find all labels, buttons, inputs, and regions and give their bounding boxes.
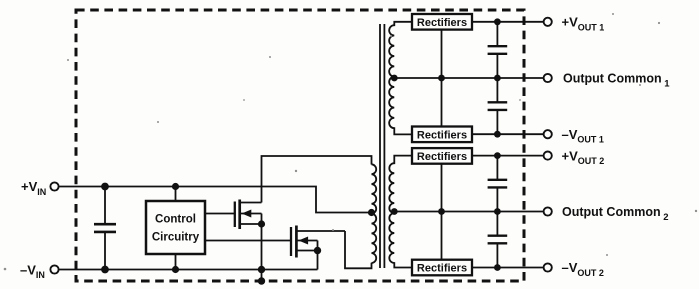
- rectifiers box 4: [412, 260, 472, 276]
- wire output common 1 row: [394, 77, 543, 79]
- capacitor Cout2: [488, 156, 508, 212]
- wire gate lead Q1: [205, 213, 235, 215]
- T1 secondary 2 winding with leads: [389, 156, 412, 268]
- terminal output common 1: [544, 74, 552, 82]
- terminal +VOUT1: [544, 18, 552, 26]
- wire -VOUT2 row: [472, 267, 544, 269]
- wire rect3-rect4 interconnect: [441, 164, 443, 260]
- rectifiers box 1: [412, 14, 472, 30]
- svg-text:Rectifiers: Rectifiers: [417, 130, 467, 142]
- wire rect1-rect2 interconnect: [441, 30, 443, 127]
- transistor Q1: [235, 200, 262, 230]
- wire control bottom lead: [175, 254, 177, 270]
- rectifiers box 2: [412, 127, 472, 143]
- wire +VOUT2 row: [472, 155, 544, 157]
- node output common 1 junction: [494, 75, 501, 82]
- transformer T1 core: [380, 24, 384, 268]
- node interconnect 1 on output common 1: [438, 75, 445, 82]
- wire Q1 source to -VIN and case stub: [261, 214, 263, 282]
- node: input cap top junction: [101, 183, 109, 191]
- dashed case border: [76, 10, 524, 281]
- node +VOUT2 junction: [494, 152, 501, 159]
- wire Q1 drain to primary top: [262, 156, 372, 203]
- -VIN terminal: [50, 265, 58, 273]
- node secondary 2 center tap: [391, 208, 398, 215]
- node primary center tap: [368, 209, 375, 216]
- node control bottom junction: [172, 266, 179, 273]
- T1 primary winding: [372, 164, 377, 263]
- node control top junction: [172, 183, 179, 190]
- svg-text:Rectifiers: Rectifiers: [417, 263, 467, 275]
- node Q2 source-body junction: [314, 247, 321, 254]
- node +VOUT1 junction: [494, 18, 501, 25]
- wire gate lead Q2: [205, 240, 291, 242]
- svg-text:Rectifiers: Rectifiers: [417, 151, 467, 163]
- capacitor Cout2b: [488, 212, 508, 268]
- wire control top lead: [175, 187, 177, 202]
- svg-text:Rectifiers: Rectifiers: [417, 17, 467, 29]
- wire +VOUT1 row: [472, 21, 544, 23]
- wire Q2 drain to primary bottom: [345, 231, 372, 268]
- node Q1 source-body junction: [258, 220, 265, 227]
- wire +VIN rail to primary center tap: [59, 187, 370, 213]
- node output common 2 junction: [494, 208, 501, 215]
- terminal -VOUT2: [544, 263, 552, 271]
- wire -VOUT1 row: [472, 133, 544, 135]
- node case connection on border: [258, 277, 265, 284]
- terminal -VOUT1: [544, 130, 552, 138]
- wire -VIN rail: [59, 269, 318, 271]
- capacitor Cout1: [488, 22, 508, 78]
- control circuitry box U1: [146, 201, 205, 254]
- +VIN terminal: [50, 182, 58, 190]
- terminal +VOUT2: [544, 152, 552, 160]
- terminal output common 2: [544, 207, 552, 215]
- capacitor Cout1b: [488, 78, 508, 134]
- node Q1 source to -VIN junction: [258, 266, 265, 273]
- rectifiers box 3: [412, 148, 472, 164]
- transistor Q2: [291, 226, 345, 258]
- svg-text:Control: Control: [155, 214, 196, 226]
- node -VOUT2 junction: [494, 264, 501, 271]
- T1 secondary 1 winding with leads: [389, 22, 412, 135]
- capacitor C_in: [94, 187, 116, 270]
- node: input cap bottom junction: [101, 266, 109, 274]
- wire output common 2 row: [394, 211, 543, 213]
- node -VOUT1 junction: [494, 131, 501, 138]
- node secondary 1 center tap: [391, 75, 398, 82]
- wire Q2 source to -VIN: [317, 241, 319, 270]
- svg-text:Circuitry: Circuitry: [152, 232, 200, 244]
- node interconnect 2 on output common 2: [438, 208, 445, 215]
